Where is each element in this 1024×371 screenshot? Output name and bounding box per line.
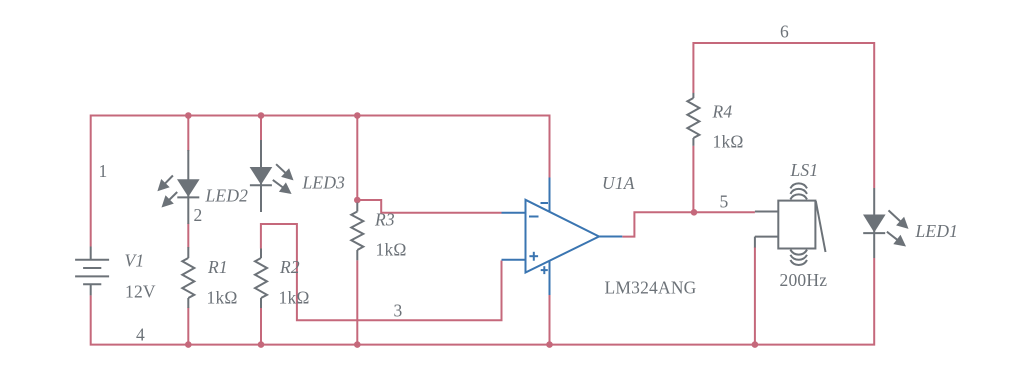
junction bottom rail at R3: [354, 341, 361, 348]
LED1: [863, 188, 909, 258]
svg-text:R3: R3: [374, 210, 395, 230]
svg-text:LED3: LED3: [302, 173, 346, 193]
junction bottom rail at R1: [185, 341, 192, 348]
wire net 1 branch down to R3 top node: [356, 116, 358, 203]
svg-text:R2: R2: [279, 257, 300, 277]
svg-text:5: 5: [720, 192, 729, 212]
LED2: [157, 150, 199, 224]
svg-text:LS1: LS1: [790, 160, 819, 180]
svg-text:12V: 12V: [125, 282, 156, 302]
junction bottom rail at op-amp V-: [546, 341, 553, 348]
svg-text:V1: V1: [125, 251, 145, 271]
wire: R1 bottom to bottom rail: [187, 308, 189, 345]
wire: R4 bottom to node 5: [692, 146, 694, 213]
svg-text:R4: R4: [712, 102, 733, 122]
junction node 5 at R4 bottom: [691, 209, 698, 216]
svg-text:LED1: LED1: [915, 221, 959, 241]
wire: R3 top node to op-amp inverting input: [357, 200, 501, 213]
battery V1: [75, 247, 109, 296]
resistor R4: [687, 93, 699, 146]
junction bottom rail at R2: [258, 341, 265, 348]
svg-text:R1: R1: [207, 257, 228, 277]
op-amp U1A: [502, 178, 623, 296]
wire net 1 top rail: battery top up and right to op-amp V+: [91, 116, 550, 247]
LED3: [250, 140, 294, 212]
buzzer LS1: [755, 183, 826, 265]
svg-text:1kΩ: 1kΩ: [279, 288, 310, 308]
svg-text:1kΩ: 1kΩ: [713, 132, 744, 152]
junction top rail at LED3: [258, 112, 265, 119]
wire net 1 branch to LED2 anode: [187, 116, 189, 152]
resistor R1: [182, 247, 194, 308]
resistor R3: [351, 203, 363, 261]
junction top rail at LED2: [185, 112, 192, 119]
svg-text:1kΩ: 1kΩ: [207, 288, 238, 308]
resistor R2: [255, 249, 267, 309]
svg-text:2: 2: [194, 205, 203, 225]
svg-text:U1A: U1A: [602, 173, 635, 193]
svg-text:3: 3: [394, 301, 403, 321]
wire net 5: op-amp output jog to R4 bottom and LS1: [622, 212, 755, 236]
wire: R3 bottom to bottom rail: [356, 260, 358, 344]
junction top rail at R3 column: [354, 112, 361, 119]
svg-text:1kΩ: 1kΩ: [376, 240, 407, 260]
wire net 4 bottom rail: battery bottom to LED1 cathode: [91, 258, 875, 345]
svg-text:200Hz: 200Hz: [780, 270, 828, 290]
wire: R2 bottom to bottom rail: [260, 308, 262, 345]
svg-text:6: 6: [780, 22, 789, 42]
junction bottom rail at LS1: [752, 341, 759, 348]
wire net 1 branch to LED3 anode: [260, 116, 262, 142]
wire: op-amp V- pin to bottom rail: [549, 295, 551, 345]
svg-text:LM324ANG: LM324ANG: [605, 278, 697, 298]
svg-text:4: 4: [136, 325, 145, 345]
junction node at R3 top: [354, 197, 361, 204]
wire net 2: LED2 cathode to R1 top: [187, 224, 189, 248]
wire net 3: op-amp non-inverting input down-left to R2 top and LED3: [261, 224, 502, 320]
wire net 6: R4 top up, right, down to LED1 anode: [693, 43, 874, 188]
wire: LS1 bottom to bottom rail: [754, 247, 756, 345]
svg-text:1: 1: [99, 161, 108, 181]
svg-text:LED2: LED2: [205, 186, 249, 206]
